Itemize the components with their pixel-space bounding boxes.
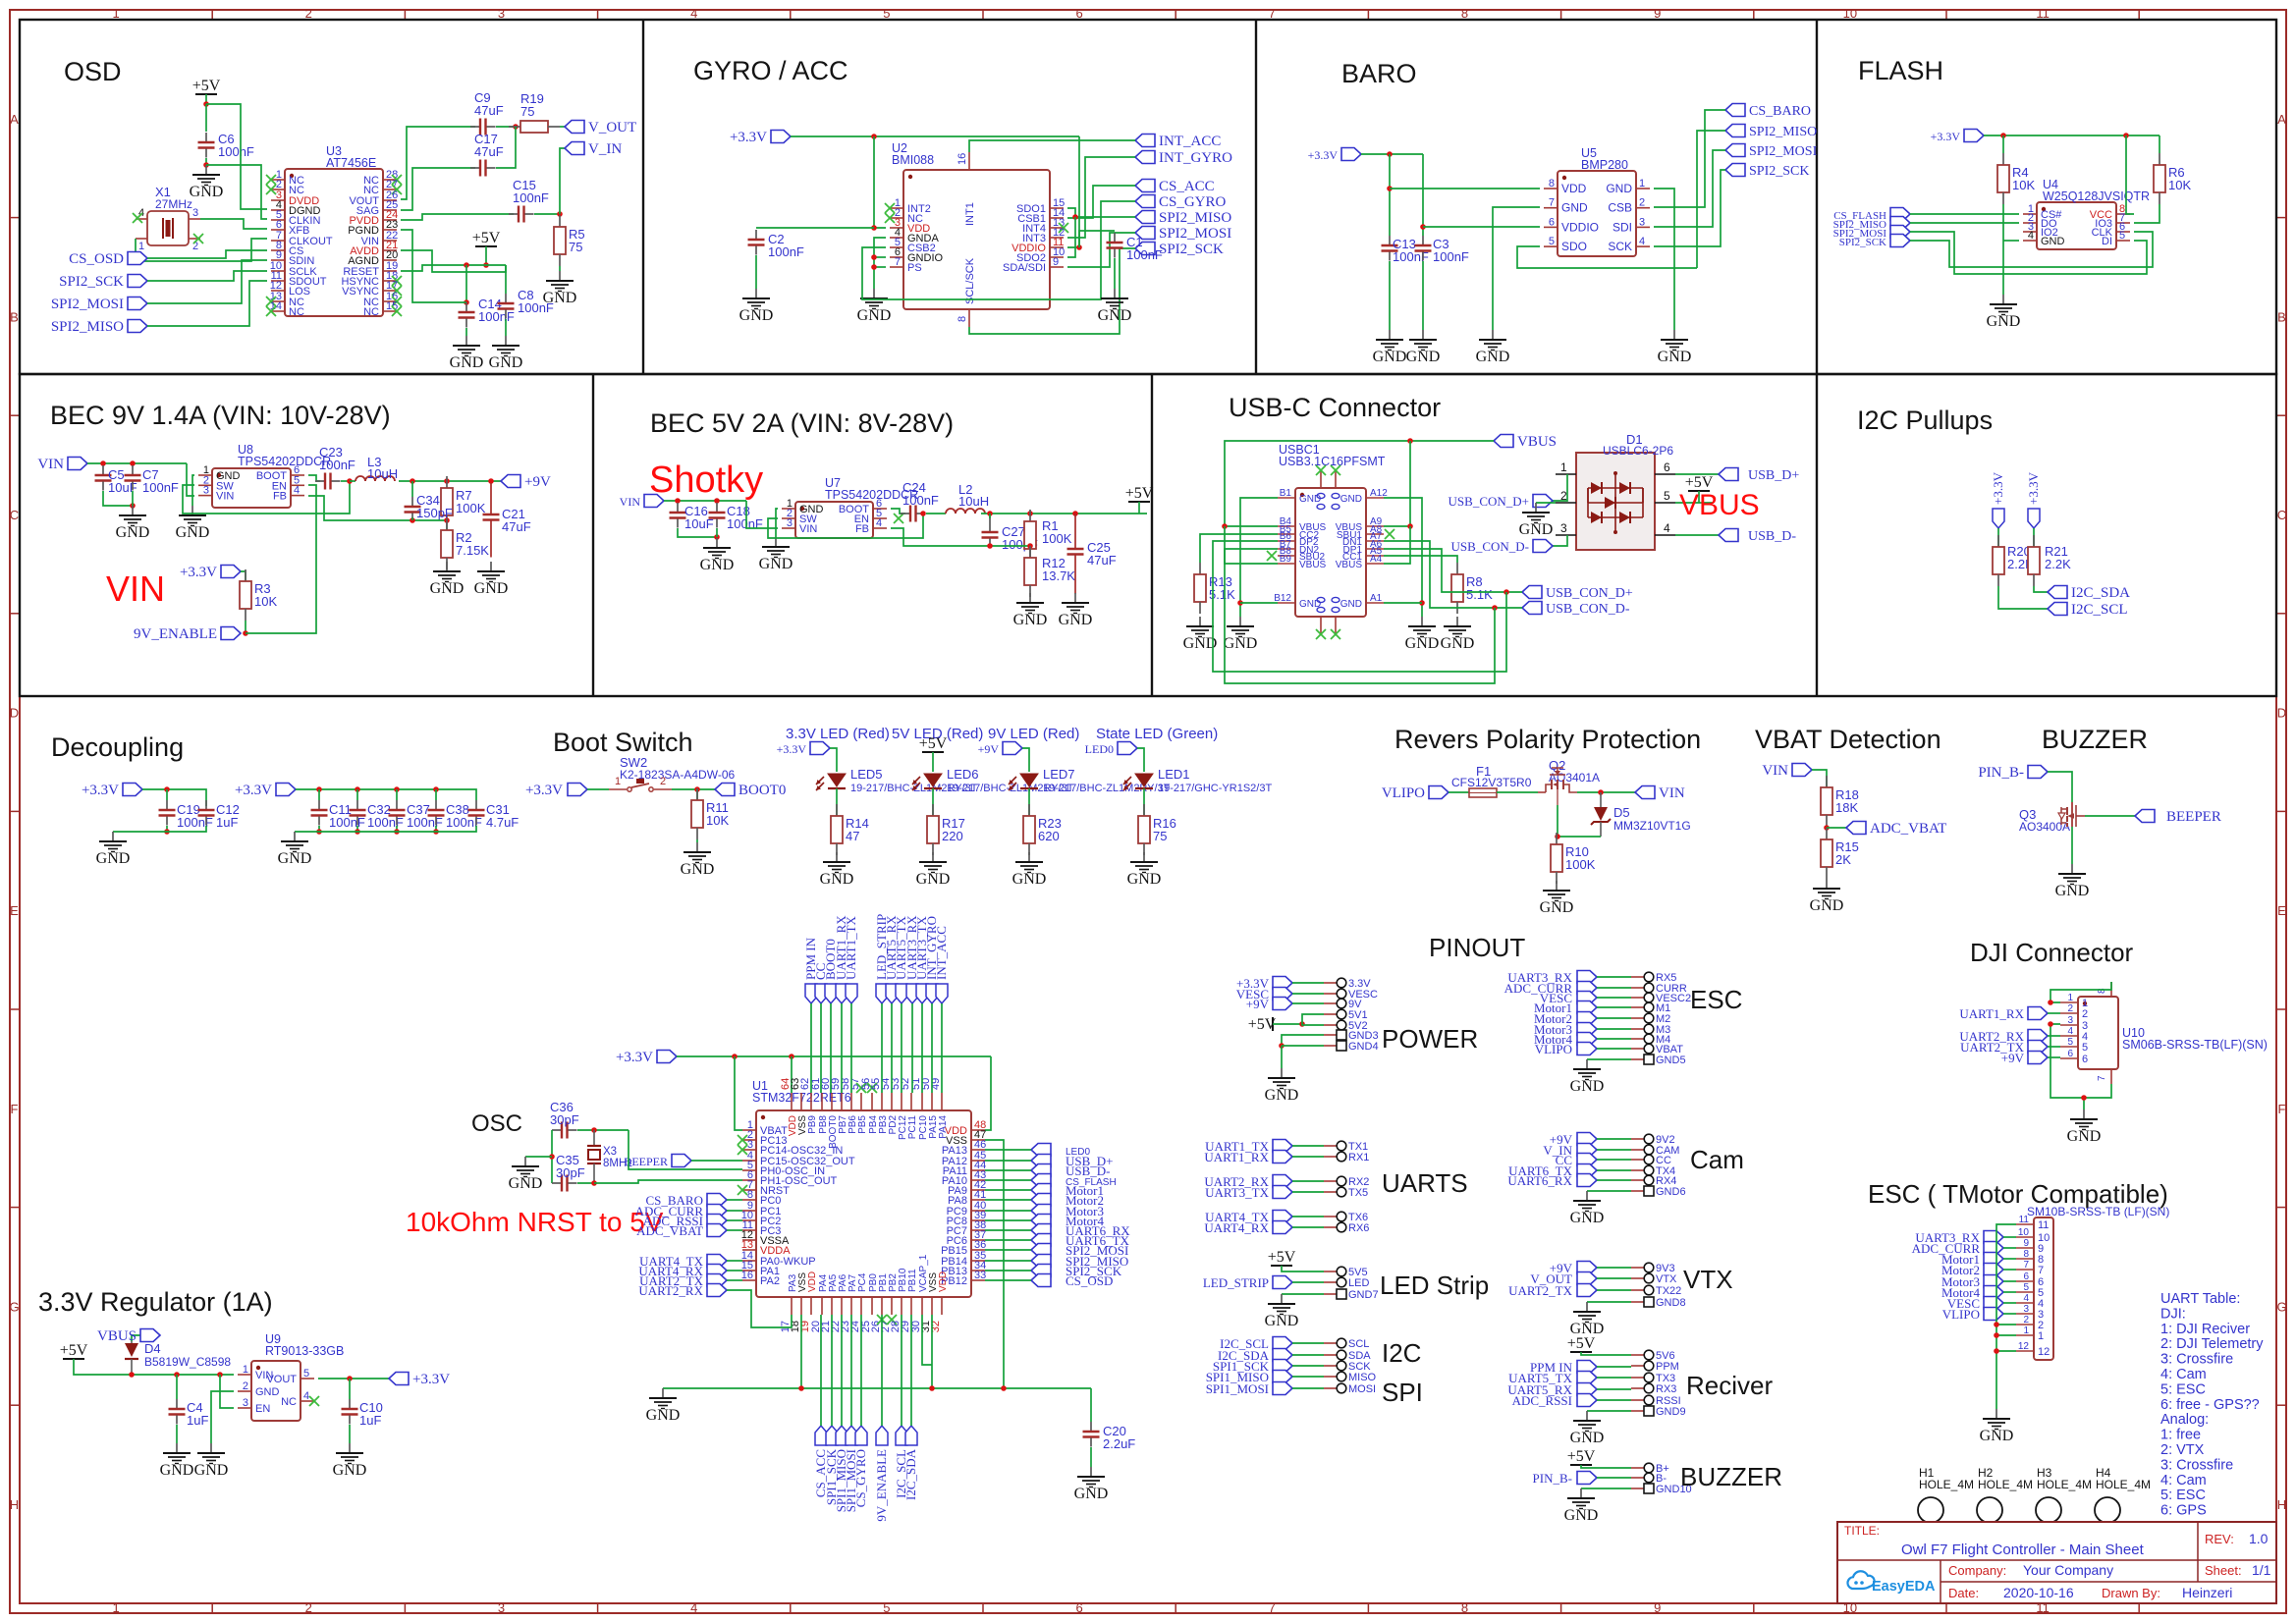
svg-text:SCL: SCL bbox=[1348, 1338, 1369, 1350]
svg-text:11: 11 bbox=[2038, 1219, 2049, 1231]
capacitor C25 bbox=[1067, 514, 1117, 594]
svg-text:Company:: Company: bbox=[1948, 1563, 2006, 1578]
svg-text:HOLE_4M: HOLE_4M bbox=[1978, 1478, 2033, 1491]
wire to C2 bbox=[756, 227, 874, 229]
svg-text:12: 12 bbox=[2038, 1346, 2050, 1358]
wire bbox=[830, 1003, 832, 1093]
wire bbox=[860, 1315, 862, 1426]
svg-text:+3.3V: +3.3V bbox=[777, 742, 807, 756]
wire CS_FLASH bbox=[1910, 213, 2019, 215]
LED LED5 bbox=[816, 767, 978, 794]
net flag Motor2 (ESC hdr) bbox=[1534, 1011, 1597, 1026]
wire bbox=[716, 528, 718, 537]
svg-text:100nF: 100nF bbox=[1126, 247, 1163, 262]
ground (C20) bbox=[1074, 1467, 1109, 1502]
wire GND6 bbox=[1587, 1190, 1631, 1192]
svg-text:4: Cam: 4: Cam bbox=[2160, 1473, 2207, 1488]
svg-text:LED7: LED7 bbox=[1043, 767, 1075, 782]
wire bbox=[910, 1315, 912, 1426]
wire bbox=[560, 126, 565, 128]
wire PVDD to C15 bbox=[401, 214, 514, 220]
wire bbox=[1597, 1366, 1631, 1368]
net flag UART1_RX (MCU top) bbox=[834, 915, 848, 1003]
svg-text:Owl F7 Flight Controller - Mai: Owl F7 Flight Controller - Main Sheet bbox=[1901, 1542, 2145, 1558]
wire bbox=[1996, 1350, 2016, 1352]
svg-text:CS_ACC: CS_ACC bbox=[1159, 179, 1215, 194]
svg-text:SPI2_SCK: SPI2_SCK bbox=[1159, 242, 1224, 257]
svg-text:RX6: RX6 bbox=[1348, 1222, 1369, 1234]
svg-text:SDO: SDO bbox=[1561, 240, 1587, 253]
junction bbox=[243, 630, 248, 636]
net flag BEEPER bbox=[2135, 809, 2221, 825]
EasyEDA logo bbox=[1847, 1571, 1936, 1595]
wire bbox=[534, 213, 560, 215]
svg-text:USB_CON_D-: USB_CON_D- bbox=[1451, 539, 1529, 554]
wire gate bbox=[2048, 772, 2072, 802]
wire bbox=[820, 1003, 822, 1093]
wire bbox=[318, 826, 320, 832]
wire +3.3V rail bbox=[1984, 135, 2159, 136]
wire bbox=[1114, 258, 1116, 289]
junction bbox=[1492, 605, 1498, 611]
svg-text:VDD: VDD bbox=[938, 1271, 949, 1292]
svg-text:+5V: +5V bbox=[1567, 1335, 1596, 1352]
svg-text:LED Strip: LED Strip bbox=[1380, 1271, 1489, 1300]
wire CS_OSD bbox=[147, 250, 267, 258]
ground (C5 C7) bbox=[116, 506, 150, 541]
wire bbox=[1090, 1447, 1092, 1467]
U3 right pins bbox=[341, 169, 402, 318]
capacitor C7 bbox=[125, 465, 179, 495]
svg-text:GND: GND bbox=[1570, 1430, 1605, 1446]
svg-text:GND: GND bbox=[1980, 1428, 2014, 1444]
wire bbox=[1597, 976, 1631, 978]
net flag Motor3 (ESC hdr) bbox=[1534, 1022, 1597, 1037]
net flag UART5_RX (MCU top) bbox=[884, 915, 899, 1003]
wire bbox=[850, 1003, 852, 1093]
svg-text:CS_OSD: CS_OSD bbox=[1066, 1273, 1113, 1288]
wire SPI2_MOSI bbox=[1654, 150, 1725, 227]
wire bbox=[341, 480, 350, 482]
U4 left pins bbox=[2023, 203, 2065, 247]
header UARTS pins bbox=[1324, 1141, 1369, 1234]
wire bbox=[142, 789, 206, 806]
net flag VESC (ESC hdr) bbox=[1540, 991, 1597, 1005]
svg-text:7: 7 bbox=[2038, 1265, 2044, 1276]
svg-text:GND: GND bbox=[116, 524, 150, 541]
svg-text:USB_D-: USB_D- bbox=[1748, 529, 1796, 544]
wire bbox=[985, 1239, 1031, 1241]
svg-text:I2C_SCL: I2C_SCL bbox=[2071, 602, 2128, 618]
net flag CS_ACC bbox=[1135, 179, 1215, 194]
svg-text:7: 7 bbox=[1269, 1600, 1276, 1615]
svg-text:GND: GND bbox=[194, 1462, 229, 1479]
svg-text:HOLE_4M: HOLE_4M bbox=[2096, 1478, 2151, 1491]
svg-text:SM06B-SRSS-TB(LF)(SN): SM06B-SRSS-TB(LF)(SN) bbox=[2122, 1038, 2268, 1052]
svg-text:PA2: PA2 bbox=[760, 1275, 780, 1287]
wire bbox=[1022, 748, 1029, 772]
svg-text:LED1: LED1 bbox=[1158, 767, 1190, 782]
junction bbox=[557, 211, 563, 217]
ground (LED1) bbox=[1127, 852, 1162, 888]
mounting hole H3 bbox=[2036, 1466, 2092, 1523]
section title Boot Switch bbox=[553, 728, 693, 757]
junction bbox=[1237, 600, 1243, 606]
diode bridge inside D1 bbox=[1588, 471, 1643, 534]
svg-text:1: 1 bbox=[2038, 1330, 2044, 1342]
svg-text:+9V: +9V bbox=[1246, 997, 1270, 1011]
svg-text:GND: GND bbox=[1074, 1486, 1109, 1502]
crystal X1 pin stubs bbox=[136, 207, 200, 252]
ground (R13) bbox=[1183, 617, 1218, 652]
junction bbox=[217, 1372, 223, 1378]
svg-text:5: 5 bbox=[2067, 1037, 2073, 1048]
svg-text:GND: GND bbox=[96, 850, 131, 867]
junction bbox=[164, 829, 170, 835]
svg-text:100nF: 100nF bbox=[902, 493, 939, 508]
junction bbox=[714, 534, 720, 540]
svg-text:7: 7 bbox=[1269, 6, 1276, 21]
net flag USB_CON_D+ (D1) bbox=[1449, 494, 1553, 509]
wire bbox=[1302, 1024, 1324, 1025]
net flag UART3_RX (CN1) bbox=[1915, 1230, 2003, 1245]
svg-text:VDDIO: VDDIO bbox=[1561, 220, 1599, 234]
svg-text:CSB: CSB bbox=[1608, 201, 1632, 215]
svg-text:8: 8 bbox=[1461, 6, 1468, 21]
net flag CS_BARO bbox=[1725, 104, 1811, 120]
svg-text:Cam: Cam bbox=[1690, 1145, 1744, 1174]
svg-text:TITLE:: TITLE: bbox=[1844, 1524, 1880, 1538]
wire bbox=[2159, 135, 2160, 153]
wire VBUS A-side bbox=[1384, 441, 1410, 526]
net flag +9V (DJI) bbox=[2001, 1051, 2048, 1065]
svg-text:30pF: 30pF bbox=[556, 1165, 585, 1180]
power +5V (regulator) bbox=[60, 1342, 88, 1359]
svg-text:5: 5 bbox=[2082, 1042, 2088, 1054]
junction bbox=[347, 478, 353, 484]
crystal X1 bbox=[147, 185, 192, 245]
svg-text:7: 7 bbox=[2023, 1260, 2029, 1271]
svg-text:9V_ENABLE: 9V_ENABLE bbox=[874, 1449, 889, 1522]
svg-text:+5V: +5V bbox=[1125, 485, 1154, 502]
wire bbox=[1581, 1465, 1631, 1468]
svg-text:GND: GND bbox=[1265, 1087, 1299, 1104]
capacitor C5 bbox=[95, 465, 137, 495]
svg-text:HOLE_4M: HOLE_4M bbox=[2037, 1478, 2092, 1491]
svg-text:4.7uF: 4.7uF bbox=[486, 815, 519, 830]
svg-text:X3: X3 bbox=[603, 1146, 617, 1158]
svg-text:MOSI: MOSI bbox=[1348, 1383, 1376, 1395]
junction bbox=[444, 517, 450, 523]
capacitor C12 bbox=[198, 800, 240, 830]
wire bbox=[205, 104, 207, 132]
svg-text:5: 5 bbox=[2023, 1282, 2029, 1293]
capacitor C37 bbox=[389, 800, 443, 830]
svg-text:PA14: PA14 bbox=[938, 1115, 949, 1139]
wire bbox=[485, 246, 487, 265]
net flag LED_STRIP (hdr) bbox=[1203, 1275, 1292, 1290]
net flag BEEPER (MCU) bbox=[624, 1155, 691, 1169]
wire VSS47 bbox=[985, 1140, 1004, 1388]
svg-text:+3.3V: +3.3V bbox=[180, 565, 217, 580]
wire bbox=[841, 1315, 843, 1426]
svg-text:+3.3V: +3.3V bbox=[2026, 471, 2041, 505]
svg-text:CS_GYRO: CS_GYRO bbox=[1159, 194, 1227, 210]
net flag ADC_CURR (CN1) bbox=[1912, 1241, 2003, 1256]
wire bbox=[911, 1003, 913, 1093]
net flag UART6_RX (MCU right) bbox=[1031, 1223, 1130, 1238]
wire bbox=[1292, 1354, 1324, 1356]
svg-text:11: 11 bbox=[2036, 6, 2050, 21]
svg-text:2: VTX: 2: VTX bbox=[2160, 1442, 2205, 1458]
svg-text:2020-10-16: 2020-10-16 bbox=[2003, 1585, 2074, 1600]
net flag VIN (RPP) bbox=[1635, 785, 1685, 801]
section title 3.3V Regulator (1A) bbox=[38, 1287, 273, 1317]
svg-text:GND: GND bbox=[1127, 871, 1162, 888]
wire CC1 to R8 bbox=[1384, 556, 1457, 563]
wire DJI pin1 loop bbox=[2050, 982, 2111, 1002]
svg-text:BUZZER: BUZZER bbox=[2042, 725, 2148, 754]
svg-text:UART3_TX: UART3_TX bbox=[1205, 1185, 1270, 1200]
svg-text:6: 6 bbox=[2067, 1049, 2073, 1059]
svg-text:8: 8 bbox=[957, 316, 968, 322]
svg-text:Your Company: Your Company bbox=[2023, 1562, 2113, 1578]
wire 5V rail bbox=[981, 513, 1147, 514]
svg-text:SM10B-SRSS-TB (LF)(SN): SM10B-SRSS-TB (LF)(SN) bbox=[2027, 1205, 2169, 1218]
svg-text:5: 5 bbox=[1549, 236, 1555, 247]
svg-text:2: 2 bbox=[1639, 197, 1645, 209]
connector CN1 SM10B-SRSS-TB bbox=[2027, 1205, 2169, 1360]
wire bbox=[2048, 1035, 2060, 1037]
resistor R2 bbox=[441, 518, 489, 569]
wire +3.3V rail bbox=[677, 1055, 991, 1057]
net flag VBUS (regulator) bbox=[97, 1328, 160, 1344]
ground (C6) bbox=[190, 165, 224, 200]
net flag I2C_SCL (MCU bottom) bbox=[894, 1426, 908, 1498]
capacitor C2 bbox=[748, 230, 804, 259]
svg-text:GND: GND bbox=[333, 1462, 367, 1479]
net flag UART2_RX (UARTS hdr) bbox=[1204, 1174, 1292, 1189]
wire U7 GND bbox=[776, 509, 778, 537]
wire bbox=[1384, 526, 1410, 564]
wire bbox=[881, 1003, 883, 1093]
wire D1 pin4 bbox=[1675, 534, 1719, 536]
wire C1 top bbox=[1079, 231, 1115, 247]
svg-text:GND7: GND7 bbox=[1348, 1289, 1379, 1301]
net flag UART5_TX (MCU top) bbox=[894, 915, 908, 1003]
net flag UART4_TX (UARTS hdr) bbox=[1205, 1210, 1292, 1224]
net flag CS_ACC (MCU bottom) bbox=[813, 1426, 828, 1497]
svg-text:H: H bbox=[2277, 1497, 2286, 1512]
svg-text:10uH: 10uH bbox=[367, 466, 398, 481]
net flag SPI1_MISO (MCU bottom) bbox=[834, 1426, 848, 1512]
wire bbox=[727, 1279, 742, 1281]
svg-text:+3.3V: +3.3V bbox=[730, 130, 767, 145]
svg-text:ADC_RSSI: ADC_RSSI bbox=[1512, 1393, 1572, 1408]
net flag UART6_RX (Cam hdr) bbox=[1507, 1173, 1597, 1188]
svg-text:I2C_SDA: I2C_SDA bbox=[903, 1448, 918, 1500]
svg-text:3: 3 bbox=[1639, 216, 1645, 228]
svg-text:1: free: 1: free bbox=[2160, 1428, 2201, 1443]
svg-text:VLIPO: VLIPO bbox=[1382, 785, 1425, 801]
label 3.3V LED (Red) bbox=[786, 726, 890, 742]
capacitor C8 bbox=[498, 288, 554, 319]
wire bbox=[1449, 791, 1469, 793]
svg-text:BEEPER: BEEPER bbox=[2166, 809, 2221, 825]
net flag UART3_RX (ESC hdr) bbox=[1507, 970, 1597, 985]
section title BEC 5V 2A (VIN: 8V-28V) bbox=[650, 408, 954, 438]
svg-text:A: A bbox=[2277, 112, 2286, 127]
wire bbox=[735, 1056, 742, 1130]
wire EN bbox=[220, 1375, 234, 1408]
svg-text:UART2_TX: UART2_TX bbox=[1508, 1283, 1573, 1298]
junction bbox=[2048, 1021, 2053, 1027]
no-connect X (X1 pin4) bbox=[133, 213, 142, 223]
wire bbox=[2003, 1313, 2016, 1315]
svg-text:+3.3V: +3.3V bbox=[1931, 130, 1961, 143]
svg-text:3: 3 bbox=[498, 1600, 505, 1615]
resistor R14 bbox=[831, 804, 869, 855]
capacitor C16 bbox=[670, 503, 714, 531]
svg-text:30pF: 30pF bbox=[550, 1112, 579, 1127]
wire bbox=[1292, 1365, 1324, 1367]
net flag I2C_SDA (MCU bottom) bbox=[903, 1426, 918, 1500]
svg-text:75: 75 bbox=[1153, 829, 1167, 843]
svg-text:Drawn By:: Drawn By: bbox=[2102, 1586, 2160, 1600]
svg-text:620: 620 bbox=[1038, 829, 1060, 843]
svg-text:3: Crossfire: 3: Crossfire bbox=[2160, 1352, 2233, 1368]
imu U2 BMI088 bbox=[892, 141, 1050, 309]
net flag I2C_SDA bbox=[2048, 585, 2130, 601]
wire bbox=[1143, 788, 1145, 816]
svg-text:100K: 100K bbox=[1565, 857, 1596, 872]
net flag INT_ACC bbox=[1135, 134, 1221, 149]
svg-text:GND: GND bbox=[509, 1175, 543, 1192]
wire bbox=[691, 1160, 742, 1162]
svg-text:BARO: BARO bbox=[1341, 59, 1417, 88]
svg-text:100nF: 100nF bbox=[478, 309, 515, 324]
svg-text:5.1K: 5.1K bbox=[1466, 587, 1493, 602]
svg-text:B1: B1 bbox=[1280, 488, 1292, 499]
svg-text:1.0: 1.0 bbox=[2249, 1531, 2269, 1546]
net flag VLIPO (CN1) bbox=[1942, 1307, 2003, 1322]
wire bbox=[1292, 1156, 1324, 1158]
svg-text:Reciver: Reciver bbox=[1686, 1371, 1773, 1400]
svg-text:+5V: +5V bbox=[1567, 1448, 1596, 1465]
capacitor C3 bbox=[1415, 236, 1469, 264]
svg-text:33: 33 bbox=[974, 1270, 986, 1281]
svg-text:V_OUT: V_OUT bbox=[588, 120, 636, 135]
svg-text:100K: 100K bbox=[1042, 531, 1072, 546]
svg-text:VTX: VTX bbox=[1656, 1273, 1677, 1285]
ground (R2) bbox=[430, 562, 465, 597]
svg-text:GND: GND bbox=[1340, 494, 1362, 505]
svg-text:3: 3 bbox=[787, 517, 793, 529]
svg-text:4: 4 bbox=[876, 517, 882, 529]
svg-text:10kOhm NRST to 5V: 10kOhm NRST to 5V bbox=[406, 1207, 664, 1237]
net flag ADC_CURR (ESC hdr) bbox=[1504, 981, 1597, 996]
svg-text:6: 6 bbox=[1075, 1600, 1082, 1615]
ground (C21) bbox=[474, 562, 509, 597]
ground (LED5) bbox=[820, 852, 854, 888]
capacitor C14 bbox=[459, 297, 515, 328]
svg-text:6: 6 bbox=[1075, 6, 1082, 21]
ground (R15) bbox=[1810, 879, 1844, 914]
mounting hole H2 bbox=[1977, 1466, 2033, 1523]
wire bbox=[1292, 993, 1324, 995]
svg-text:VBUS: VBUS bbox=[1517, 434, 1557, 450]
U9 right pins bbox=[266, 1368, 319, 1408]
svg-text:+9V: +9V bbox=[978, 742, 1000, 756]
net flag ADC_RSSI (MCU left) bbox=[643, 1214, 727, 1228]
net flag SPI2_SCK bbox=[59, 274, 147, 290]
wire U9 GND bbox=[211, 1391, 234, 1443]
ground (C8) bbox=[489, 336, 523, 371]
net flag Motor1 (CN1) bbox=[1941, 1252, 2003, 1267]
svg-text:100nF: 100nF bbox=[142, 480, 179, 495]
capacitor C17 bbox=[470, 132, 504, 177]
svg-text:9: 9 bbox=[2023, 1238, 2029, 1249]
net flag CS_GYRO (MCU bottom) bbox=[853, 1426, 868, 1507]
wire bbox=[1282, 1045, 1324, 1047]
wire bbox=[1389, 154, 1391, 236]
svg-text:13.7K: 13.7K bbox=[1042, 568, 1075, 583]
wire bbox=[985, 1199, 1031, 1201]
svg-text:ESC: ESC bbox=[1690, 985, 1742, 1014]
wire bbox=[103, 491, 133, 506]
power +5V (VBUS) bbox=[1685, 474, 1714, 491]
net flag USB_D+ (MCU right) bbox=[1031, 1154, 1114, 1168]
svg-text:GND: GND bbox=[739, 307, 774, 324]
ground (Reciver hdr) bbox=[1570, 1411, 1605, 1446]
svg-text:USBLC6-2P6: USBLC6-2P6 bbox=[1603, 444, 1673, 458]
section title BEC 9V 1.4A (VIN: 10V-28V) bbox=[50, 401, 391, 430]
header I2C SPI pins bbox=[1324, 1338, 1377, 1395]
wire bbox=[396, 826, 398, 832]
inductor L2 bbox=[946, 482, 989, 514]
svg-text:SPI2_MOSI: SPI2_MOSI bbox=[1749, 144, 1818, 159]
power flag +3.3V (R21) bbox=[2026, 471, 2041, 528]
svg-text:GND6: GND6 bbox=[1656, 1186, 1686, 1198]
svg-text:PPM: PPM bbox=[1656, 1361, 1679, 1373]
wire bbox=[1028, 788, 1030, 816]
svg-text:USB_D+: USB_D+ bbox=[1748, 468, 1799, 483]
svg-text:GND9: GND9 bbox=[1656, 1406, 1686, 1418]
svg-text:INT_GYRO: INT_GYRO bbox=[1159, 150, 1232, 166]
ground (VTX hdr) bbox=[1570, 1302, 1605, 1337]
svg-text:BOOT0: BOOT0 bbox=[738, 783, 786, 798]
wire bbox=[1597, 1149, 1631, 1151]
svg-text:SCK: SCK bbox=[1608, 240, 1632, 253]
svg-text:7: 7 bbox=[2097, 1075, 2107, 1081]
net flag Motor4 (ESC hdr) bbox=[1534, 1032, 1597, 1047]
wire drain bbox=[1577, 791, 1635, 793]
wire bbox=[496, 127, 516, 168]
label Reciver bbox=[1686, 1371, 1773, 1400]
junction bbox=[410, 517, 415, 523]
svg-text:NC: NC bbox=[281, 1396, 297, 1408]
svg-text:VIN: VIN bbox=[1659, 785, 1685, 801]
wire bbox=[1240, 602, 1278, 604]
capacitor C32 bbox=[350, 800, 404, 830]
net flag UART5_TX (Reciver hdr) bbox=[1508, 1371, 1597, 1385]
junction bbox=[871, 225, 877, 231]
net flag VLIPO (ESC hdr) bbox=[1535, 1042, 1597, 1056]
svg-text:11: 11 bbox=[2019, 1215, 2030, 1225]
U8 left pins bbox=[198, 464, 241, 503]
net flag SPI2_SCK bbox=[1725, 164, 1809, 180]
wire bbox=[587, 788, 609, 790]
